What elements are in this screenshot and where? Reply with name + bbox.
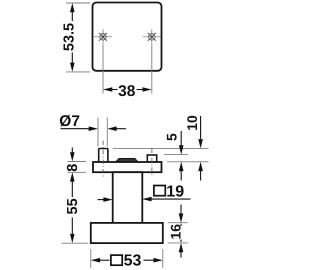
knob grip [91, 223, 163, 243]
centerline right screw axis [151, 149, 153, 177]
svg-text:16: 16 [168, 224, 184, 240]
square symbol of label 19 [154, 186, 165, 196]
svg-text:53: 53 [124, 252, 142, 269]
extension line from right screw hole [151, 45, 153, 94]
extension line knob left edge (for dim 53) [90, 249, 92, 268]
dimension 10 arrows [198, 116, 203, 181]
svg-text:Ø7: Ø7 [59, 113, 80, 130]
svg-text:38: 38 [118, 83, 136, 100]
dimension 38 arrows and line [103, 87, 152, 92]
svg-text:10: 10 [184, 115, 200, 131]
dimension 8 arrows [70, 148, 75, 182]
stem width arrow left [98, 197, 113, 202]
extension line knob top right (for dim 16) [168, 222, 188, 224]
centerline left screw axis [102, 141, 104, 178]
extension line plate bottom left (for dim 8) [68, 171, 87, 173]
dimension 53.5 arrows and line [70, 3, 75, 72]
extension line from left boss top (for dim 10) [113, 147, 209, 149]
svg-text:8: 8 [65, 164, 81, 172]
extension line Ø7 left [97, 118, 99, 147]
screw hole symbol right [143, 29, 161, 44]
rose plate (side view) [93, 162, 162, 172]
square symbol of label 53 [111, 255, 122, 265]
extension line Ø7 right [106, 118, 108, 147]
dimension 5 arrows [179, 131, 184, 181]
svg-text:19: 19 [166, 183, 184, 200]
extension line knob bottom right (for dim 16) [168, 242, 188, 244]
spindle hub (side view) [116, 159, 138, 162]
extension line rose top edge [66, 2, 90, 4]
stem width arrow right with leader [142, 197, 190, 202]
square rose outline [93, 3, 162, 71]
svg-text:5: 5 [164, 133, 180, 141]
knob stem [113, 172, 143, 223]
extension line from right boss top (for dim 5) [164, 154, 188, 156]
svg-text:55: 55 [65, 198, 81, 214]
dimension 53 arrows and line [91, 258, 163, 263]
extension line from left screw hole [102, 45, 104, 94]
svg-text:53.5: 53.5 [62, 23, 78, 51]
dimension 55 line and arrow [70, 181, 75, 243]
extension line knob right edge (for dim 53) [162, 249, 164, 268]
screw boss right (side view) [147, 155, 156, 162]
extension line rose bottom edge [66, 71, 90, 73]
extension line knob bottom left (for dim 55) [62, 242, 89, 244]
screw boss left (side view) [99, 149, 108, 163]
extension line from plate top (for dims 5 and 10) [167, 161, 209, 163]
screw hole symbol left [94, 29, 112, 44]
dimension 16 arrows and line [179, 205, 184, 258]
extension line plate top left (for dim 8) [68, 161, 87, 163]
dimension Ø7 arrows and leader [61, 126, 126, 131]
